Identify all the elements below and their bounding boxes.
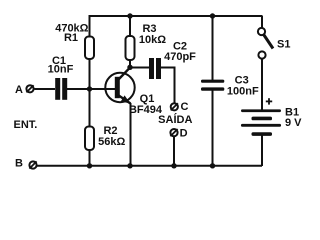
svg-text:SAÍDA: SAÍDA <box>158 113 192 126</box>
svg-text:56kΩ: 56kΩ <box>98 136 125 148</box>
svg-text:ENT.: ENT. <box>14 119 38 131</box>
svg-text:9 V: 9 V <box>285 117 302 129</box>
svg-text:A: A <box>15 84 23 96</box>
svg-text:C: C <box>181 101 189 113</box>
svg-text:R1: R1 <box>64 32 78 44</box>
svg-text:S1: S1 <box>277 39 290 51</box>
svg-text:D: D <box>180 127 188 139</box>
svg-text:10nF: 10nF <box>48 64 74 76</box>
svg-text:100nF: 100nF <box>227 86 259 98</box>
svg-text:10kΩ: 10kΩ <box>139 34 166 46</box>
svg-text:B: B <box>15 158 23 170</box>
svg-text:470pF: 470pF <box>164 51 196 63</box>
